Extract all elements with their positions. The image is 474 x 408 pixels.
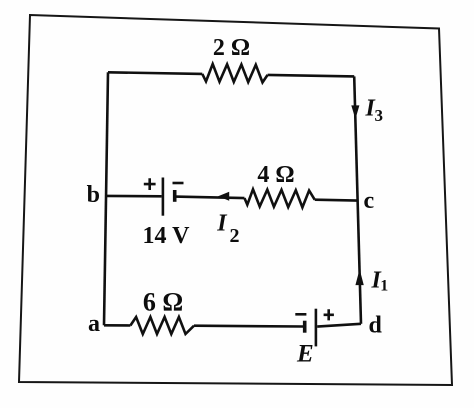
svg-text:6 Ω: 6 Ω <box>143 288 183 317</box>
svg-text:2 Ω: 2 Ω <box>213 35 250 61</box>
battery E long plate (+) <box>315 309 318 347</box>
svg-text:2: 2 <box>230 225 240 247</box>
wire left side (corner b down to node a) <box>104 72 108 325</box>
svg-text:4 Ω: 4 Ω <box>257 162 294 188</box>
svg-text:3: 3 <box>375 106 384 125</box>
wire right side (corner c down to node d) <box>354 76 361 323</box>
wire middle (battery 14V to resistor 4Ω) <box>175 197 245 199</box>
svg-text:1: 1 <box>380 278 388 295</box>
battery 14V long plate (+) <box>162 178 165 216</box>
resistor 4Ω <box>245 189 315 207</box>
plus sign of battery E <box>324 309 334 320</box>
svg-text:14 V: 14 V <box>143 223 191 249</box>
wire bottom (resistor 6Ω to battery E) <box>194 324 304 327</box>
wire middle-left (node b to battery 14V) <box>106 195 162 198</box>
battery E short plate (-) <box>303 321 307 333</box>
wire bottom-left (node a to resistor 6Ω) <box>104 324 130 327</box>
wire top-right segment (resistor 2Ω to node c corner) <box>268 75 355 77</box>
resistor 2Ω <box>202 64 267 82</box>
svg-text:b: b <box>87 182 100 208</box>
wire middle-right (resistor 4Ω to node c) <box>315 198 358 202</box>
plus sign of 14V battery <box>144 178 156 190</box>
svg-text:E: E <box>296 341 314 368</box>
wire bottom-right (battery E to node d) <box>317 324 361 327</box>
arrow I1 (current up) <box>356 272 363 285</box>
arrow I2 (current left) <box>220 193 229 200</box>
svg-text:I: I <box>216 211 228 237</box>
minus sign of battery E <box>295 313 306 316</box>
battery 14V short plate (-) <box>173 190 177 202</box>
svg-text:d: d <box>369 312 383 338</box>
resistor 6Ω <box>130 317 194 334</box>
svg-text:c: c <box>364 188 375 214</box>
svg-text:a: a <box>88 311 100 337</box>
wire top-left segment (node b corner to resistor 2Ω) <box>108 72 202 74</box>
arrow I3 (current down) <box>352 106 359 117</box>
minus sign of 14V battery <box>173 182 184 185</box>
